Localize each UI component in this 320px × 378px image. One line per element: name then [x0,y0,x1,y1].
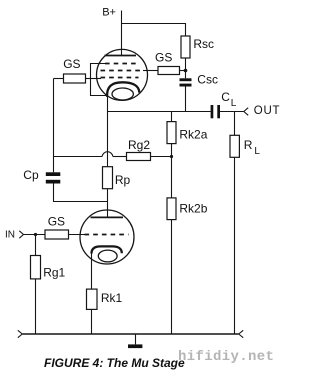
svg-text:Csc: Csc [197,72,218,86]
wire GS to U2 grid [69,234,86,236]
svg-text:GS: GS [63,57,80,71]
svg-text:Rk1: Rk1 [101,291,123,305]
svg-text:C: C [221,90,230,104]
svg-text:OUT: OUT [254,105,280,117]
svg-text:Rk2b: Rk2b [179,202,207,216]
U1 grid g1 [101,77,139,79]
resistor Rg2 [151,156,172,158]
wire B+ down to upper tube plate [121,11,123,56]
resistor Rg1 [35,235,37,256]
wire U2 cathode to Rk1 [91,253,93,290]
U1 grid g3 [105,63,140,65]
resistor Rsc [181,36,190,58]
resistor RL [234,112,236,136]
wire ground bus [22,333,238,335]
wire Rk1 to ground bus [91,309,93,334]
resistor Rk2a [171,112,173,122]
node junction dot (screen node) [184,69,188,73]
svg-text:FIGURE 4: The Mu Stage: FIGURE 4: The Mu Stage [44,356,185,370]
svg-text:Rg1: Rg1 [43,266,65,280]
U1 heater ellipse [112,88,133,100]
svg-text:Rg2: Rg2 [128,138,150,152]
wire B+ branch to Rsc [122,24,186,37]
U2 cathode [92,246,122,253]
node junction dot (Rg2 tap) [170,155,173,158]
ground [135,334,137,344]
svg-text:IN: IN [5,230,15,241]
svg-text:Rsc: Rsc [193,37,214,51]
svg-text:Rk2a: Rk2a [179,128,207,142]
wire Rsc to Csc [185,58,187,78]
U2 heater ellipse [98,250,117,262]
svg-text:GS: GS [48,214,65,228]
svg-text:GS: GS [155,51,172,65]
U1 cathode [107,82,139,97]
U1 grid g2 [101,70,144,72]
wire U1 cathode down to Rp [107,96,109,167]
op tube U1 (upper pentode) envelope [97,49,148,100]
node OUT terminal [244,108,248,112]
wire Rg1 to ground bus [35,279,37,334]
node junction dot (Rg1 tap) [34,233,37,236]
node B+ label [102,7,116,19]
svg-text:hifidiy.net: hifidiy.net [178,349,274,365]
capacitor Cp [46,172,61,176]
wire IN to GS [24,234,46,236]
wire Rg2 left with hop over Rp wire [113,156,127,158]
wire Rp to lower plate [107,189,109,218]
wire Rk2b to ground bus [171,220,173,334]
resistor Rk2b [167,198,176,220]
wire RL to ground bus [234,157,236,334]
wire CL to OUT [220,111,244,113]
op tube U2 (lower triode) envelope [80,210,134,264]
wire Rk2a to Rk2b [171,144,173,198]
capacitor CL [211,105,214,118]
node IN terminal [19,231,23,235]
node bus left terminal [18,330,23,334]
svg-text:B+: B+ [102,7,116,19]
wire g3-to-cathode bracket [91,64,108,96]
output rail wire (upper cathode node) [108,111,211,113]
svg-text:L: L [254,146,260,157]
capacitor Csc [180,78,192,81]
U2 plate [91,216,124,218]
resistor GS (upper right grid stopper) [143,70,158,72]
wire Csc to output rail [185,87,187,112]
resistor GS (upper left grid stopper) [54,78,64,80]
node bus right terminal [239,330,244,334]
svg-text:Rp: Rp [115,173,131,187]
svg-text:L: L [231,98,237,109]
wire left vertical (g1 node down to Cp / Rg2) [53,79,55,173]
U2 grid [85,234,129,236]
resistor Rk1 [87,289,98,309]
wire Cp to lower plate node [54,184,108,202]
U1 plate [105,55,137,57]
svg-text:Cp: Cp [23,168,39,182]
resistor GS (lower grid stopper) [45,230,69,239]
resistor Rp [103,167,113,189]
svg-text:R: R [244,138,253,152]
